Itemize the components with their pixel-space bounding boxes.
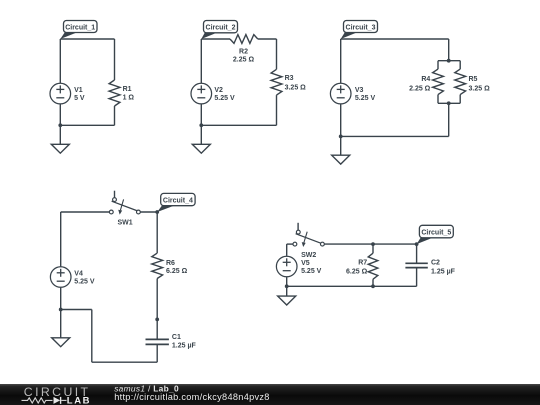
svg-text:5.25 V: 5.25 V [214,95,235,102]
resistor R3 [271,39,282,125]
svg-text:Circuit_5: Circuit_5 [421,229,451,236]
svg-text:6.25 Ω: 6.25 Ω [166,268,188,275]
svg-text:C2: C2 [431,259,440,266]
svg-text:V3: V3 [355,87,364,94]
svg-text:1.25 µF: 1.25 µF [172,343,197,350]
voltage source V5 [276,256,297,277]
svg-text:V5: V5 [301,260,310,267]
node tag Circuit_1 [60,21,97,40]
label C1 1.25 uF [172,334,197,350]
wire circuit3 right bottom [448,103,450,136]
svg-text:Circuit_4: Circuit_4 [163,197,193,204]
wire circuit3 right drop [448,39,450,61]
resistor R2 [230,35,258,44]
junction node circuit4 [155,210,159,214]
logo LAB text [67,396,91,405]
wire circuit5 bottom [287,285,417,287]
svg-text:R4: R4 [421,76,430,83]
capacitor C2 [405,244,427,286]
junction node circuit5 [415,242,419,246]
svg-text:V1: V1 [74,87,83,94]
resistor R5 [455,61,466,104]
voltage source V3 [330,83,351,104]
wire circuit2 top [201,38,276,40]
wire ground stem c4 [60,310,62,338]
label SW2 [301,252,316,259]
svg-text:2.25 Ω: 2.25 Ω [233,57,255,64]
svg-text:1.25 µF: 1.25 µF [431,269,456,276]
wire circuit3 top [341,38,449,40]
wire ground stem c3 [340,136,342,155]
switch SW2 [293,223,324,247]
wire switch to node [140,211,157,213]
wire circuit2 left [200,39,202,125]
wire circuit3 left [340,39,342,136]
svg-text:SW2: SW2 [301,252,316,259]
svg-text:5.25 V: 5.25 V [74,279,95,286]
svg-text:SW1: SW1 [118,219,133,226]
junction R6-C1 [155,318,159,322]
capacitor C1 [146,319,169,362]
svg-text:V2: V2 [214,87,223,94]
svg-text:2.25 Ω: 2.25 Ω [409,85,431,92]
logo resistor-diode line [22,397,67,404]
label R1 1 ohm [123,86,135,101]
svg-text:C1: C1 [172,334,181,341]
svg-text:6.25 Ω: 6.25 Ω [346,269,368,276]
junction V5 ground [285,284,289,288]
footer title samus1 / Lab_0 [114,384,179,394]
junction parallel bottom [447,101,451,105]
resistor R4 [433,61,444,104]
svg-text:R7: R7 [358,259,367,266]
svg-text:R5: R5 [469,76,478,83]
label R7 6.25 ohm [346,259,368,275]
wire V5 bottom [286,277,288,286]
wire circuit4 top left [61,212,110,266]
label V1 5 V [74,87,85,102]
svg-text:R3: R3 [285,75,294,82]
junction node circuit2 [199,123,203,127]
label V3 5.25 V [355,87,376,102]
node tag Circuit_5 [417,225,454,244]
junction node circuit1 [58,123,62,127]
svg-text:Circuit_2: Circuit_2 [206,25,236,32]
footer bar [0,384,540,405]
wire ground stem c1 [59,125,61,144]
junction node circuit3 [339,135,343,139]
svg-text:R1: R1 [123,86,132,93]
svg-text:LAB: LAB [67,396,91,405]
label C2 1.25 uF [431,259,456,275]
label R4 2.25 ohm [409,76,431,92]
svg-text:3.25 Ω: 3.25 Ω [469,85,491,92]
wire circuit1 left [59,39,61,125]
label R5 3.25 ohm [469,76,491,92]
ground [192,144,210,153]
voltage source V1 [50,83,71,104]
svg-text:Circuit_3: Circuit_3 [346,25,376,32]
wire circuit3 bottom [341,135,449,137]
svg-text:1 Ω: 1 Ω [123,95,135,102]
resistor R6 [152,212,163,319]
label R2 2.25 ohm [233,49,255,64]
label R3 3.25 ohm [285,75,307,92]
wire parallel top bracket [438,60,460,62]
logo CIRCUIT text [24,385,91,399]
svg-text:3.25 Ω: 3.25 Ω [285,85,307,92]
svg-text:R2: R2 [239,49,248,56]
junction V4 ground [59,308,63,312]
svg-text:5 V: 5 V [74,95,85,102]
label V5 5.25 V [301,260,322,275]
svg-text:5.25 V: 5.25 V [301,268,322,275]
footer url [114,392,270,402]
switch SW1 [109,191,140,215]
wire circuit1 bottom [60,124,114,126]
svg-text:R6: R6 [166,260,175,267]
voltage source V2 [191,83,212,104]
wire switch to C2 node [324,243,416,245]
junction parallel top [447,59,451,63]
svg-text:http://circuitlab.com/ckcy848n: http://circuitlab.com/ckcy848n4pvz8 [114,392,270,402]
wire ground stem c5 [286,286,288,296]
wire V4 bottom [60,288,62,310]
label SW1 [118,219,133,226]
ground [278,296,296,305]
label R6 6.25 ohm [166,260,188,275]
wire circuit4 bottom loop [61,310,158,363]
wire circuit5 V5 top [287,244,293,256]
wire circuit1 top [60,38,114,40]
junction R7 top [371,242,375,246]
resistor R1 [109,39,120,125]
wire ground stem c2 [200,125,202,144]
svg-text:Circuit_1: Circuit_1 [65,25,95,32]
node tag Circuit_3 [341,21,378,40]
wire parallel bottom bracket [438,102,460,104]
voltage source V4 [50,267,71,288]
node tag Circuit_2 [201,21,237,40]
ground [51,144,69,153]
node tag Circuit_4 [157,193,195,212]
junction R7 bottom [371,284,375,288]
wire circuit2 bottom [201,124,276,126]
ground [332,155,350,164]
ground [52,338,70,347]
label V4 5.25 V [74,270,95,285]
svg-text:5.25 V: 5.25 V [355,95,376,102]
svg-text:V4: V4 [74,270,83,277]
label V2 5.25 V [214,87,235,102]
resistor R7 [368,244,378,286]
